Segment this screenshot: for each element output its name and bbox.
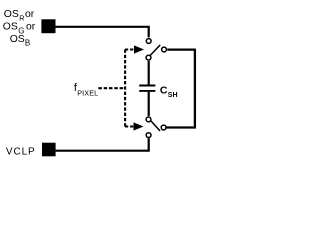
dashed control line from fPIXEL xyxy=(98,87,125,89)
switch S2 contact F (bottom) xyxy=(146,133,151,138)
terminal VCLP (black square) xyxy=(42,143,56,157)
wire S2 bottom contact to VCLP terminal xyxy=(56,138,149,151)
dashed control branch to switch S2 xyxy=(125,126,134,128)
switch S1 contact C (right) xyxy=(162,47,167,52)
svg-text:OS: OS xyxy=(3,21,18,32)
svg-text:PIXEL: PIXEL xyxy=(77,88,98,97)
arrowhead to switch S1 xyxy=(134,45,144,53)
node fPIXEL label xyxy=(74,82,98,97)
wire right rail to switch S2 right contact xyxy=(166,126,196,128)
svg-text:C: C xyxy=(160,85,168,97)
dashed control line vertical xyxy=(124,50,126,127)
wire OS terminal to top switch xyxy=(55,27,149,38)
terminal OS (black square) xyxy=(41,19,55,33)
wire S1 right contact to right rail xyxy=(167,48,196,50)
node OS label line 2 (OSG or) xyxy=(3,21,36,35)
dashed control branch to switch S1 xyxy=(125,49,135,51)
switch S2 lever xyxy=(151,121,160,131)
svg-text:OS: OS xyxy=(10,34,25,45)
switch S2 contact D (top) xyxy=(146,117,151,122)
switch S1 contact B (bottom) xyxy=(146,55,151,60)
svg-text:or: or xyxy=(25,9,35,20)
switch S1 lever xyxy=(150,45,160,56)
wire S1 bottom contact to capacitor xyxy=(148,61,150,85)
switch S1 contact A (top) xyxy=(146,39,151,44)
switch S2 contact E (right) xyxy=(161,125,166,130)
wire right rail xyxy=(194,50,196,128)
capacitor CSH value label xyxy=(160,85,178,100)
node OS label line 1 (OSR or) xyxy=(4,9,35,23)
arrowhead to switch S2 xyxy=(134,122,144,130)
svg-text:OS: OS xyxy=(4,9,19,20)
svg-text:VCLP: VCLP xyxy=(6,146,36,157)
svg-text:B: B xyxy=(25,39,30,48)
capacitor CSH top plate xyxy=(139,85,155,87)
node OS label line 3 (OSB) xyxy=(10,34,31,48)
wire capacitor to switch S2 xyxy=(148,92,150,116)
capacitor CSH bottom plate xyxy=(139,90,155,92)
svg-text:SH: SH xyxy=(168,92,178,99)
svg-text:R: R xyxy=(19,14,24,23)
svg-text:or: or xyxy=(26,21,36,32)
